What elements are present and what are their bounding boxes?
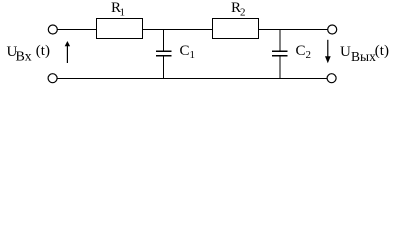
wire top: input terminal to R1	[57, 29, 97, 31]
svg-text:2: 2	[306, 49, 312, 61]
wire C2 lower stub	[279, 57, 281, 79]
wire bottom: input terminal to output terminal	[57, 78, 327, 80]
svg-text:2: 2	[240, 6, 246, 18]
capacitor C1 bottom plate	[156, 55, 172, 57]
capacitor C2 top plate	[272, 50, 288, 52]
svg-text:Вых: Вых	[351, 49, 376, 64]
resistor R1	[97, 19, 143, 39]
svg-text:U: U	[340, 44, 351, 60]
svg-text:1: 1	[190, 49, 196, 61]
terminal output bottom	[327, 74, 336, 83]
terminal input bottom	[48, 74, 57, 83]
capacitor C1 top plate	[156, 50, 172, 52]
arrow output down	[325, 40, 331, 64]
resistor R2	[213, 19, 259, 39]
svg-text:(t): (t)	[375, 43, 389, 59]
wire top: R2 to output terminal	[259, 29, 328, 31]
label U_Bix(t) output voltage	[340, 43, 389, 64]
wire C1 upper stub	[163, 30, 165, 51]
terminal output top	[328, 25, 337, 34]
terminal input top	[48, 25, 57, 34]
svg-text:C: C	[296, 43, 306, 59]
svg-text:(t): (t)	[36, 43, 50, 59]
svg-text:1: 1	[120, 6, 126, 18]
label U_Bx(t) input voltage	[7, 43, 50, 65]
wire C1 lower stub	[163, 57, 165, 79]
wire C2 upper stub	[279, 30, 281, 51]
arrow input up	[65, 41, 70, 63]
capacitor C2 bottom plate	[272, 55, 288, 57]
svg-text:Вх: Вх	[16, 50, 32, 65]
svg-text:C: C	[180, 43, 190, 59]
wire top: R1 to R2	[143, 29, 213, 31]
